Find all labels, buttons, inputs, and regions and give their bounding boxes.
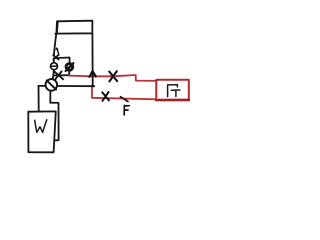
valve X4 on red return line (102, 92, 109, 101)
wire: red supply line (69, 75, 157, 81)
wire: main line from tee to red junction, with valve V2 (53, 74, 69, 76)
valve V2 (X on main line) (55, 71, 63, 79)
valve V1 (X on left pipe) (53, 55, 58, 60)
wire: red return line with jog (92, 86, 156, 99)
flow arrow on riser (89, 71, 96, 77)
wire: pipe between valve V1 and gauge T1 (53, 59, 55, 62)
leader line for label F (121, 97, 128, 102)
wire: boiler right riser pipe (91, 33, 93, 86)
actuator arrow A1 above valve V1 (57, 49, 59, 55)
wire: pipe from gauge T1 through tee down to pump P1 top (53, 70, 54, 80)
label F (124, 105, 129, 115)
label Gt inside consumer box (168, 85, 178, 97)
boiler B1 doubled left edge (57, 21, 58, 33)
wire: black pump return line (38, 85, 94, 87)
pump P1 (slashed circle) (46, 79, 58, 91)
check valve N1 (dark slashed circle) (66, 64, 73, 71)
wire: pipe below check valve N1 (68, 70, 70, 75)
gauge T1 (circle with chord) (51, 63, 58, 70)
valve X3 on red supply line (109, 71, 117, 81)
wire: pipe down to tank W top (38, 86, 40, 112)
wire: bypass branch pipe to check valve N1 (54, 58, 70, 64)
junction node at riser bottom (91, 85, 94, 88)
consumer box bottom edge thickened (156, 99, 189, 102)
wire: left supply pipe from boiler down to valve V1 (54, 34, 56, 56)
wire: pump bottom pipe to tank right inlet (50, 91, 58, 141)
boiler B1 (top rectangle) (55, 21, 92, 34)
consumer unit box G (red rectangle) (156, 80, 189, 100)
tank W (front box) (28, 111, 56, 152)
label W inside tank (35, 120, 47, 133)
